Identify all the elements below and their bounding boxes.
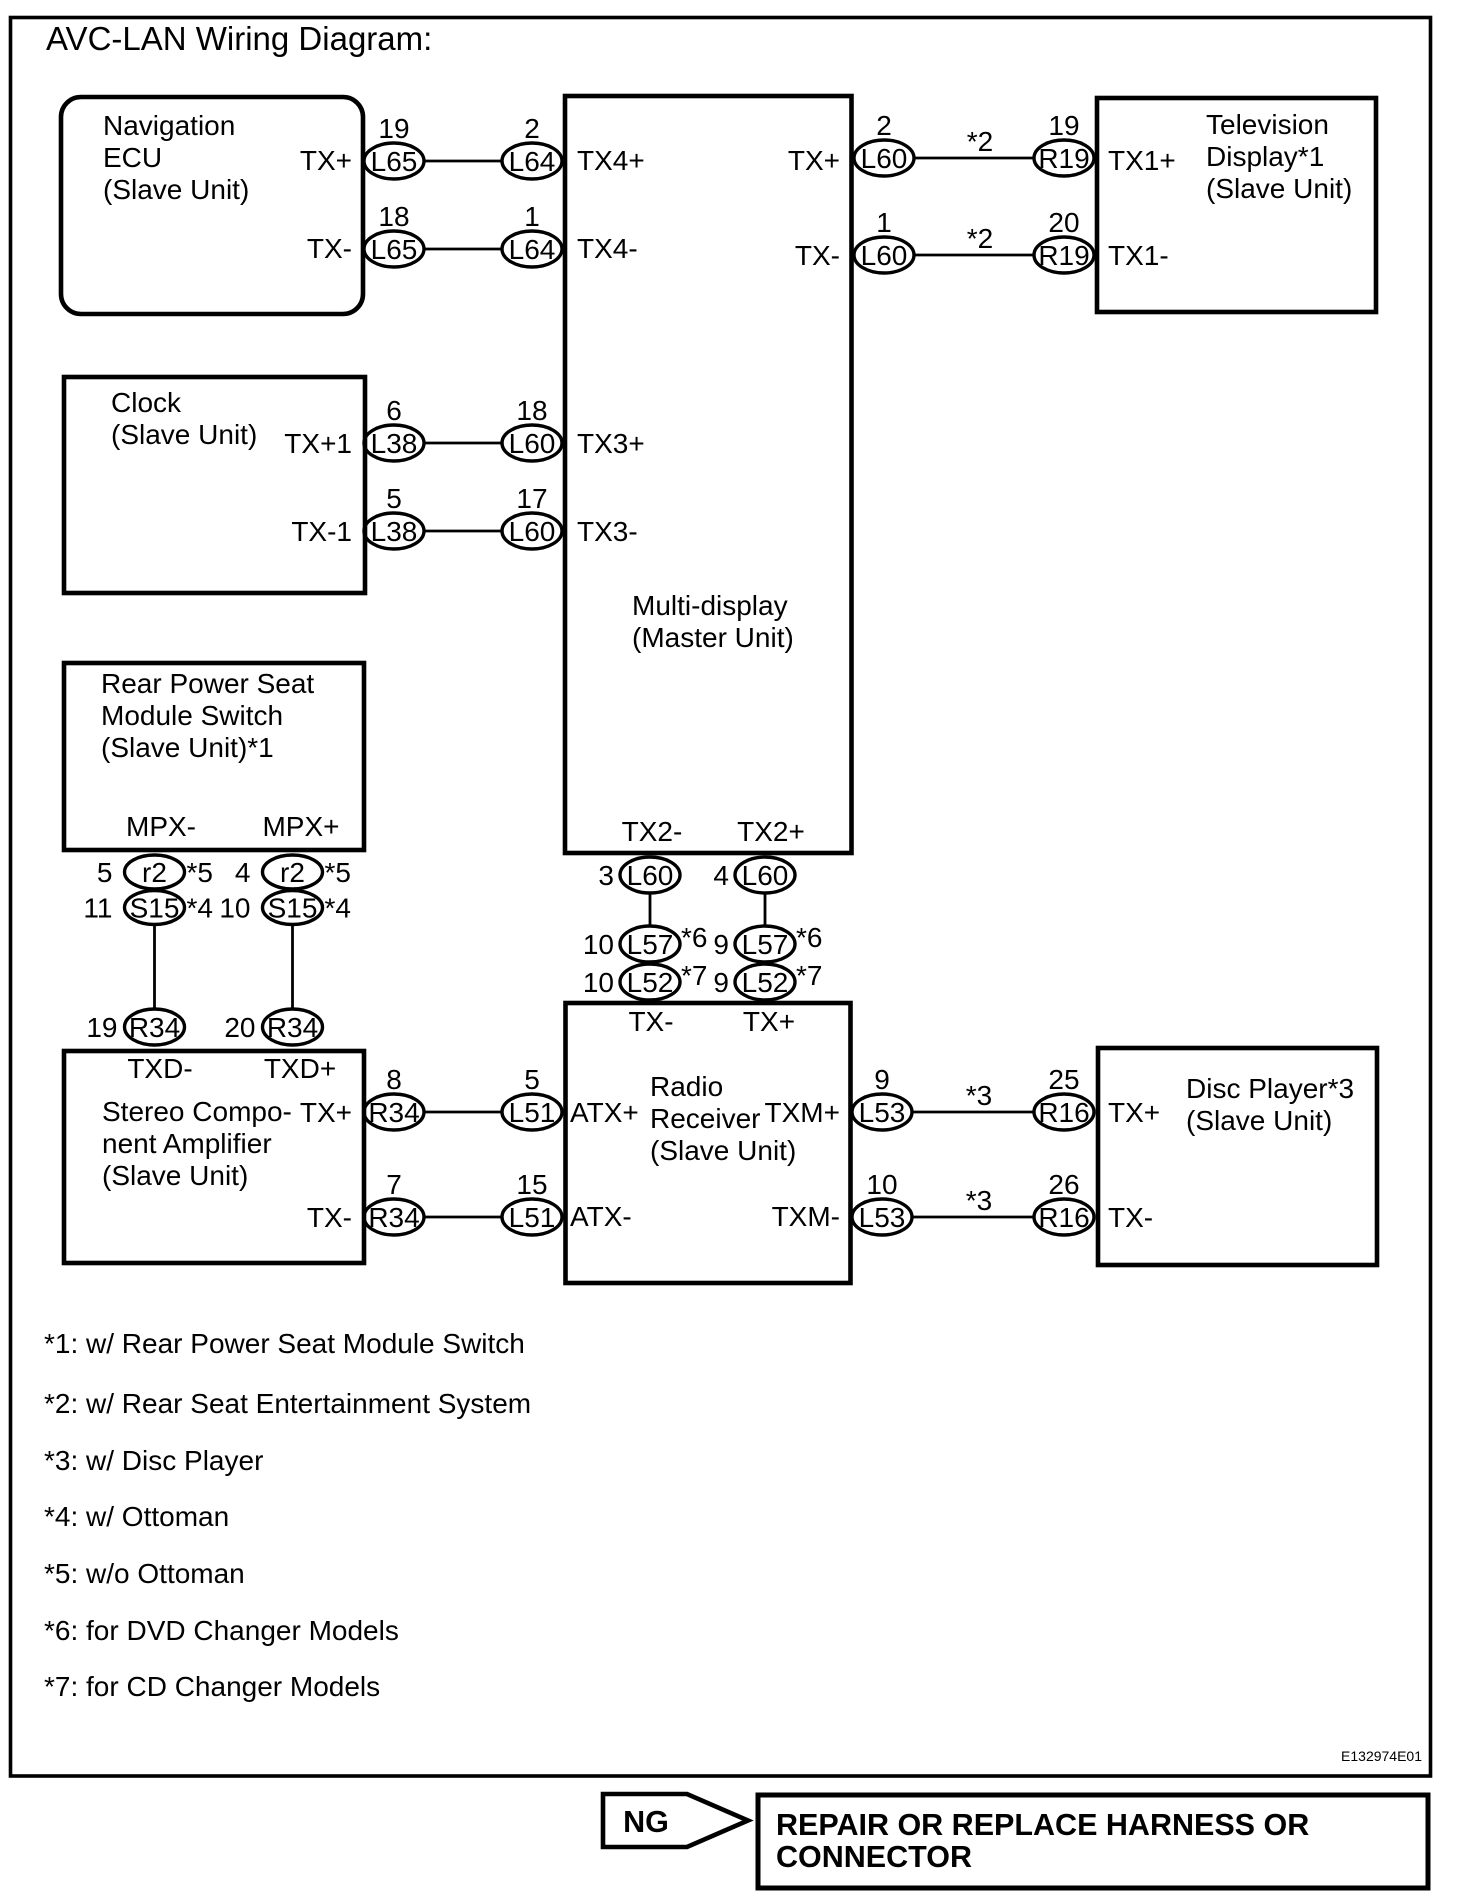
svg-text:Clock: Clock [111,387,182,418]
svg-text:ECU: ECU [103,142,162,173]
connector L60 TX2 left [620,857,680,893]
svg-text:ATX+: ATX+ [570,1097,639,1128]
wire tv TX- harness [914,254,1034,257]
svg-text:MPX+: MPX+ [262,811,339,842]
svg-text:18: 18 [516,395,547,426]
connector L60 TX2 right [735,857,795,893]
connector L60 TX3+ [502,425,562,461]
unit box Clock [64,377,365,593]
svg-text:5: 5 [97,857,113,888]
svg-text:TX2+: TX2+ [737,816,805,847]
svg-text:2: 2 [876,110,892,141]
connector R19 TX1+ [1034,140,1094,176]
svg-text:*5: w/o Ottoman: *5: w/o Ottoman [44,1558,245,1589]
connector R16 TX+ [1034,1094,1094,1130]
connector L52 left [620,964,680,1000]
svg-text:TX-: TX- [628,1006,673,1037]
connector L52 right [735,964,795,1000]
svg-text:TX4+: TX4+ [577,145,645,176]
svg-text:R34: R34 [267,1012,318,1043]
connector L64 TX4- [502,231,562,267]
wire S15-R34 left [153,925,156,1010]
svg-text:TX-: TX- [307,1202,352,1233]
connector S15 left [125,891,185,925]
svg-text:L60: L60 [742,860,789,891]
unit box repair instruction box [758,1795,1428,1888]
svg-text:L60: L60 [627,860,674,891]
unit box Navigation ECU [61,97,363,314]
svg-text:Stereo Compo-: Stereo Compo- [102,1096,292,1127]
svg-text:Disc Player*3: Disc Player*3 [1186,1073,1354,1104]
svg-text:TXM-: TXM- [772,1201,840,1232]
unit box Multi-display [565,96,852,853]
svg-text:8: 8 [386,1064,402,1095]
svg-text:(Slave Unit): (Slave Unit) [650,1135,796,1166]
svg-text:TX+: TX+ [300,145,352,176]
svg-text:Television: Television [1206,109,1329,140]
svg-text:Rear Power Seat: Rear Power Seat [101,668,314,699]
svg-text:L38: L38 [371,516,418,547]
svg-text:7: 7 [386,1169,402,1200]
svg-text:3: 3 [598,860,614,891]
svg-text:E132974E01: E132974E01 [1341,1748,1422,1764]
svg-text:*5: *5 [187,857,213,888]
svg-text:10: 10 [583,967,614,998]
svg-text:TX4-: TX4- [577,233,638,264]
svg-text:r2: r2 [280,857,305,888]
svg-text:R19: R19 [1038,240,1089,271]
svg-text:TX1-: TX1- [1108,240,1169,271]
svg-text:L51: L51 [509,1202,556,1233]
svg-text:11: 11 [83,893,112,924]
wire nav TX- harness [424,248,502,251]
wire nav TX+ harness [424,160,502,163]
svg-text:6: 6 [386,395,402,426]
svg-text:*6: for DVD Changer Models: *6: for DVD Changer Models [44,1615,399,1646]
svg-text:*4: w/ Ottoman: *4: w/ Ottoman [44,1501,229,1532]
svg-text:TXD+: TXD+ [264,1053,336,1084]
connector L65 TX- [364,231,424,267]
svg-text:*2: w/ Rear Seat Entertainment: *2: w/ Rear Seat Entertainment System [44,1388,531,1419]
svg-text:Multi-display: Multi-display [632,590,788,621]
connector L60 TX+ [854,140,914,176]
svg-text:1: 1 [876,207,892,238]
svg-text:S15: S15 [130,893,180,924]
svg-text:r2: r2 [142,857,167,888]
connector L57 left [620,926,680,962]
svg-text:Radio: Radio [650,1071,723,1102]
svg-text:L53: L53 [859,1097,906,1128]
svg-text:R16: R16 [1038,1097,1089,1128]
svg-text:MPX-: MPX- [126,811,196,842]
svg-text:*4: *4 [325,893,351,924]
svg-text:2: 2 [524,113,540,144]
svg-text:L60: L60 [861,143,908,174]
svg-text:*7: for CD Changer Models: *7: for CD Changer Models [44,1671,380,1702]
svg-text:L64: L64 [509,234,556,265]
svg-text:AVC-LAN Wiring Diagram:: AVC-LAN Wiring Diagram: [46,20,432,57]
unit box Stereo Component Amplifier [64,1051,364,1263]
connector L60 TX3- [502,513,562,549]
svg-text:R16: R16 [1038,1202,1089,1233]
svg-text:1: 1 [524,201,540,232]
connector S15 right [263,891,323,925]
svg-text:NG: NG [623,1805,669,1839]
connector L53 TXM+ [852,1094,912,1130]
svg-text:*3: *3 [966,1080,992,1111]
svg-text:Navigation: Navigation [103,110,235,141]
svg-text:*2: *2 [967,223,993,254]
unit box Disc Player [1098,1048,1377,1265]
svg-text:9: 9 [713,967,729,998]
svg-text:TX-: TX- [1108,1202,1153,1233]
svg-text:TX+: TX+ [788,145,840,176]
svg-text:(Slave Unit): (Slave Unit) [1206,173,1352,204]
svg-text:*7: *7 [796,960,822,991]
svg-text:(Slave Unit): (Slave Unit) [111,419,257,450]
svg-text:TX+: TX+ [300,1097,352,1128]
svg-text:L38: L38 [371,428,418,459]
svg-text:L51: L51 [509,1097,556,1128]
svg-text:L60: L60 [509,428,556,459]
connector r2 left [125,855,185,889]
svg-text:L60: L60 [509,516,556,547]
svg-text:nent Amplifier: nent Amplifier [102,1128,272,1159]
svg-text:*3: w/ Disc Player: *3: w/ Disc Player [44,1445,263,1476]
svg-text:TX1+: TX1+ [1108,145,1176,176]
wire amp TX+ harness [424,1111,502,1114]
wire tv TX+ harness [914,157,1034,160]
svg-text:5: 5 [386,483,402,514]
svg-text:CONNECTOR: CONNECTOR [776,1840,972,1874]
connector R19 TX1- [1034,237,1094,273]
wire disc TX- harness [912,1216,1034,1219]
connector L53 TXM- [852,1199,912,1235]
svg-text:5: 5 [524,1064,540,1095]
connector L38 TX-1 [364,513,424,549]
svg-text:*4: *4 [187,893,213,924]
svg-text:L53: L53 [859,1202,906,1233]
svg-text:R19: R19 [1038,143,1089,174]
svg-text:REPAIR OR REPLACE HARNESS OR: REPAIR OR REPLACE HARNESS OR [776,1808,1309,1842]
svg-text:4: 4 [235,857,251,888]
svg-text:Receiver: Receiver [650,1103,760,1134]
svg-text:19: 19 [378,113,409,144]
svg-text:17: 17 [516,483,547,514]
svg-text:15: 15 [516,1169,547,1200]
connector L38 TX+1 [364,425,424,461]
svg-text:9: 9 [713,929,729,960]
svg-text:18: 18 [378,201,409,232]
NG arrow box [603,1794,748,1847]
unit box Rear Power Seat Module Switch [64,663,364,850]
svg-text:L60: L60 [861,240,908,271]
svg-text:10: 10 [866,1169,897,1200]
svg-text:TX3-: TX3- [577,516,638,547]
unit box Television Display [1097,98,1376,312]
svg-text:20: 20 [1048,207,1079,238]
svg-text:10: 10 [583,929,614,960]
connector L60 TX- [854,237,914,273]
wire disc TX+ harness [912,1111,1034,1114]
svg-text:19: 19 [1048,110,1079,141]
svg-text:R34: R34 [368,1097,419,1128]
svg-text:*5: *5 [325,857,351,888]
connector L65 TX+ [364,143,424,179]
svg-text:(Slave Unit): (Slave Unit) [103,174,249,205]
svg-text:TXM+: TXM+ [765,1097,840,1128]
svg-text:L52: L52 [742,967,789,998]
svg-text:L65: L65 [371,234,418,265]
connector R16 TX- [1034,1199,1094,1235]
svg-text:R34: R34 [129,1012,180,1043]
connector L51 ATX- [502,1199,562,1235]
svg-text:4: 4 [713,860,729,891]
svg-text:L57: L57 [627,929,674,960]
svg-text:TXD-: TXD- [127,1053,192,1084]
unit box Radio Receiver [566,1003,851,1283]
svg-text:9: 9 [874,1064,890,1095]
connector L64 TX4+ [502,143,562,179]
connector R34 TX- [364,1199,424,1235]
svg-text:TX2-: TX2- [622,816,683,847]
svg-text:19: 19 [86,1012,117,1043]
svg-text:R34: R34 [368,1202,419,1233]
wire clock TX- harness [424,530,502,533]
svg-text:L57: L57 [742,929,789,960]
svg-text:20: 20 [224,1012,255,1043]
wire L60-L57 left [649,893,652,926]
svg-text:*3: *3 [966,1185,992,1216]
svg-text:TX-: TX- [795,240,840,271]
svg-text:L65: L65 [371,146,418,177]
connector r2 right [263,855,323,889]
svg-text:(Slave Unit): (Slave Unit) [1186,1105,1332,1136]
svg-text:10: 10 [219,893,250,924]
connector R34 TX+ [364,1094,424,1130]
svg-text:L52: L52 [627,967,674,998]
svg-text:*6: *6 [681,922,707,953]
svg-text:TX+1: TX+1 [284,428,352,459]
svg-text:TX+: TX+ [743,1006,795,1037]
svg-text:TX3+: TX3+ [577,428,645,459]
connector L51 ATX+ [502,1094,562,1130]
svg-text:25: 25 [1048,1064,1079,1095]
wire amp TX- harness [424,1216,502,1219]
svg-text:L64: L64 [509,146,556,177]
wire clock TX+ harness [424,442,502,445]
svg-text:(Slave Unit): (Slave Unit) [102,1160,248,1191]
wire L60-L57 right [764,893,767,926]
svg-text:ATX-: ATX- [570,1201,632,1232]
connector R34 right top [263,1009,323,1045]
connector L57 right [735,926,795,962]
wire S15-R34 right [291,925,294,1010]
svg-text:TX+: TX+ [1108,1097,1160,1128]
svg-text:(Master Unit): (Master Unit) [632,622,794,653]
svg-text:*6: *6 [796,922,822,953]
svg-text:(Slave Unit)*1: (Slave Unit)*1 [101,732,274,763]
svg-text:S15: S15 [268,893,318,924]
svg-text:TX-1: TX-1 [291,516,352,547]
svg-text:*1: w/ Rear Power Seat Module: *1: w/ Rear Power Seat Module Switch [44,1328,525,1359]
svg-text:Display*1: Display*1 [1206,141,1324,172]
svg-text:*7: *7 [681,960,707,991]
svg-text:Module Switch: Module Switch [101,700,283,731]
connector R34 left top [125,1009,185,1045]
svg-text:TX-: TX- [307,233,352,264]
svg-text:*2: *2 [967,126,993,157]
svg-text:26: 26 [1048,1169,1079,1200]
